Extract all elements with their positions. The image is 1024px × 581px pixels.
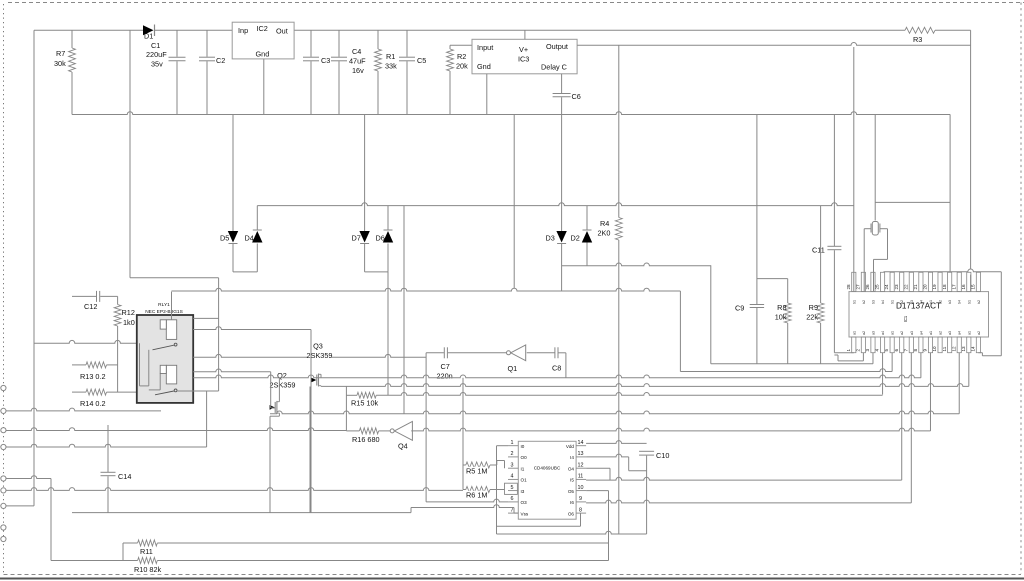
wire D7-D6 junction <box>364 244 366 272</box>
svg-text:4: 4 <box>511 474 514 480</box>
wire Q3 leg down <box>309 387 311 513</box>
svg-text:b2: b2 <box>977 300 981 304</box>
svg-text:12: 12 <box>578 462 584 468</box>
wire crystal right to pin26 <box>880 228 888 230</box>
wire Q3 source <box>320 385 322 388</box>
capacitor C4 <box>338 30 340 56</box>
wire IC1 pin12 vertical <box>958 353 960 414</box>
svg-text:NEC EP2-B3G1S: NEC EP2-B3G1S <box>145 309 183 315</box>
svg-text:8: 8 <box>913 349 918 352</box>
svg-text:5: 5 <box>884 349 889 352</box>
svg-text:8: 8 <box>579 507 582 513</box>
bus CD4069 pin6 left line <box>426 499 508 502</box>
svg-text:a1: a1 <box>929 331 933 335</box>
svg-text:19: 19 <box>932 284 937 290</box>
svg-text:R13 0.2: R13 0.2 <box>80 372 106 381</box>
svg-text:a1: a1 <box>891 331 895 335</box>
svg-text:I1: I1 <box>521 467 525 472</box>
svg-text:a1: a1 <box>852 331 856 335</box>
svg-text:C3: C3 <box>321 56 330 65</box>
resistor R3 <box>905 27 935 33</box>
svg-text:D2: D2 <box>571 234 580 243</box>
page border top (dashed) <box>8 2 1024 4</box>
bus IC1 pin5 line <box>679 291 681 372</box>
svg-text:IC2: IC2 <box>257 24 268 33</box>
svg-text:O0: O0 <box>521 455 528 460</box>
svg-text:16v: 16v <box>352 66 364 75</box>
connector wire row4 <box>6 488 463 491</box>
svg-text:b1: b1 <box>967 300 971 304</box>
wire Vss ground line <box>72 512 411 514</box>
svg-text:IC1: IC1 <box>903 315 908 322</box>
svg-text:22: 22 <box>903 284 908 290</box>
wire IC1 pin5 vertical <box>891 353 893 372</box>
svg-text:33k: 33k <box>385 62 397 71</box>
capacitor C10 <box>639 450 654 452</box>
wire x130 elbow to relay contact <box>130 277 219 279</box>
wire D3-D2 join line to pin2 elbow <box>562 263 711 266</box>
wire mid rail <box>257 203 854 206</box>
svg-text:a4: a4 <box>881 331 885 335</box>
svg-text:R6 1M: R6 1M <box>466 491 488 500</box>
svg-text:220n: 220n <box>437 372 453 381</box>
svg-text:V+: V+ <box>519 45 528 54</box>
connector wire row2 <box>6 444 207 447</box>
svg-text:CD4069UBC: CD4069UBC <box>534 466 561 471</box>
svg-text:C8: C8 <box>552 364 561 373</box>
page border left (dotted) <box>3 4 5 574</box>
wire pin2 elbow <box>710 265 712 364</box>
wire D7 anode from ground rail <box>364 115 366 232</box>
svg-text:22k: 22k <box>806 313 818 322</box>
capacitor C1 <box>176 30 178 56</box>
wire R15 left vertical <box>345 386 347 431</box>
diode D3 <box>556 231 566 243</box>
svg-text:C12: C12 <box>84 302 97 311</box>
svg-text:14: 14 <box>971 346 976 352</box>
svg-text:10k: 10k <box>775 313 787 322</box>
svg-text:D5: D5 <box>220 234 229 243</box>
svg-text:3: 3 <box>511 462 514 468</box>
wire aux rail upper <box>875 114 950 116</box>
wire relay to Q2 gate feed <box>193 369 271 372</box>
wire relay NO line <box>193 317 218 319</box>
svg-text:Output: Output <box>546 42 568 51</box>
svg-text:R15 10k: R15 10k <box>351 399 379 408</box>
IC U-IC1 D17137ACT body <box>849 292 989 337</box>
svg-text:2: 2 <box>511 451 514 457</box>
wire CD4069 pin10 to R10R11 <box>586 490 608 492</box>
svg-text:15: 15 <box>971 284 976 290</box>
wire D5-D4 junction <box>232 244 234 272</box>
wire IC1 pin7 vertical <box>910 353 912 503</box>
svg-text:23: 23 <box>894 284 899 290</box>
IC1 pin stubs <box>852 272 856 291</box>
svg-text:17: 17 <box>951 284 956 290</box>
wire right vertical to IC1 pin16 <box>970 30 972 269</box>
wire row3 drop <box>50 479 52 561</box>
page border bottom (dashed) <box>4 574 1022 576</box>
bus pin1 left wire <box>497 445 509 447</box>
svg-text:25: 25 <box>875 284 880 290</box>
diode D2 <box>582 231 592 243</box>
wire pin12 jog <box>586 467 610 469</box>
wire R5R6 left vertical <box>462 378 464 490</box>
svg-text:O4: O4 <box>568 467 575 472</box>
bus circle-R16 line left <box>6 428 346 431</box>
svg-text:C7: C7 <box>441 362 450 371</box>
svg-text:R10 82k: R10 82k <box>134 565 162 574</box>
svg-text:20k: 20k <box>456 62 468 71</box>
svg-text:1: 1 <box>511 440 514 446</box>
wire IC1 pin8 vertical <box>920 353 922 378</box>
wire left vertical from top rail <box>33 30 35 506</box>
capacitor C14 <box>107 425 109 472</box>
svg-text:Vss: Vss <box>521 511 529 516</box>
wire top supply rail <box>34 29 143 31</box>
wire D6 junction down to R15 line <box>387 272 389 395</box>
wire R11 left vertical <box>122 543 124 561</box>
svg-text:RLY1: RLY1 <box>158 302 170 308</box>
svg-text:6: 6 <box>894 349 899 352</box>
capacitor C5 <box>406 30 408 56</box>
wire Q1 out to C8 <box>527 352 555 354</box>
svg-text:10: 10 <box>578 485 584 491</box>
wire crystal left to pin27 <box>864 228 871 230</box>
resistor R8 <box>787 279 789 303</box>
bus IC1 pin13 line <box>321 384 969 387</box>
svg-text:18: 18 <box>942 284 947 290</box>
wire Q3 drain <box>320 374 322 378</box>
svg-text:R8: R8 <box>777 303 786 312</box>
resistor R6 <box>463 489 466 491</box>
resistor R2 <box>449 45 451 49</box>
crystal X1 <box>874 115 876 221</box>
wire Q2 source down to ground line <box>269 416 271 512</box>
svg-text:b1: b1 <box>852 300 856 304</box>
svg-text:R2: R2 <box>457 52 466 61</box>
capacitor C12 <box>72 295 96 297</box>
svg-text:R16 680: R16 680 <box>352 435 380 444</box>
pin5 box <box>505 483 518 494</box>
svg-text:Q4: Q4 <box>398 442 408 451</box>
wire C9 riser from ground rail <box>756 115 758 305</box>
svg-text:b3: b3 <box>948 300 952 304</box>
svg-text:O1: O1 <box>521 478 528 483</box>
svg-text:a2: a2 <box>862 331 866 335</box>
svg-text:R3: R3 <box>913 35 922 44</box>
wire IC1 pin1 to C11 <box>834 352 853 354</box>
wire C7 left elbow <box>425 353 427 502</box>
svg-text:Q1: Q1 <box>508 364 518 373</box>
bus IC1 pin6 line <box>586 477 902 480</box>
wire C6 to D3 <box>561 97 563 231</box>
svg-text:R4: R4 <box>600 219 609 228</box>
svg-text:C5: C5 <box>417 56 426 65</box>
svg-text:14: 14 <box>578 440 584 446</box>
svg-text:2K0: 2K0 <box>598 229 611 238</box>
svg-text:24: 24 <box>884 284 889 290</box>
svg-text:Gnd: Gnd <box>477 62 491 71</box>
svg-text:13: 13 <box>961 346 966 352</box>
capacitor C9 <box>750 304 764 306</box>
resistor R5 <box>463 464 466 466</box>
svg-text:a4: a4 <box>958 331 962 335</box>
svg-text:R11: R11 <box>140 547 153 556</box>
resistor R13 <box>72 364 86 366</box>
svg-text:2: 2 <box>855 349 860 352</box>
wire C9-R8-R9 bottom bus <box>711 363 873 365</box>
wire IC2 Gnd to ground rail <box>263 59 265 115</box>
wire IC3 output rail <box>577 43 971 46</box>
svg-text:a3: a3 <box>910 331 914 335</box>
svg-text:9: 9 <box>579 496 582 502</box>
wire C9-R8 top link <box>757 278 788 280</box>
relay contact 2 <box>174 389 177 392</box>
relay coil 2 <box>166 365 176 384</box>
svg-text:11: 11 <box>578 474 584 480</box>
wire IC3 Gnd to ground rail <box>486 74 488 115</box>
CD4069 pin stubs <box>508 445 518 447</box>
svg-text:C9: C9 <box>735 304 744 313</box>
svg-text:b1: b1 <box>891 300 895 304</box>
connector wire row3 <box>6 476 51 479</box>
svg-text:28: 28 <box>846 284 851 290</box>
svg-text:5: 5 <box>511 485 514 491</box>
svg-text:20: 20 <box>923 284 928 290</box>
svg-text:C4: C4 <box>352 47 361 56</box>
bus Vdd/C10 line <box>586 441 647 444</box>
connector pins <box>1 385 6 390</box>
svg-text:3: 3 <box>865 349 870 352</box>
svg-text:4: 4 <box>875 349 880 352</box>
svg-text:C11: C11 <box>812 246 825 255</box>
svg-text:D7: D7 <box>352 234 361 243</box>
wire ground rail <box>72 112 950 115</box>
svg-text:12: 12 <box>951 346 956 352</box>
svg-text:b3: b3 <box>871 300 875 304</box>
svg-text:O5: O5 <box>568 489 575 494</box>
diode D6 <box>383 231 393 243</box>
svg-text:IC3: IC3 <box>518 55 529 64</box>
capacitor C8 <box>554 347 556 358</box>
capacitor C6 <box>561 74 563 93</box>
resistor R4 <box>618 45 620 217</box>
svg-text:27: 27 <box>855 284 860 290</box>
svg-text:Inp: Inp <box>238 26 248 35</box>
svg-text:R5 1M: R5 1M <box>466 467 488 476</box>
wire Q3 gate/leg <box>310 330 312 513</box>
svg-text:I0: I0 <box>521 444 525 449</box>
relay internal wiring <box>139 343 141 386</box>
capacitor C3 <box>310 30 312 56</box>
svg-text:C2: C2 <box>216 56 225 65</box>
wire R6 to pin5 box <box>490 489 505 491</box>
bus IC1 pin7 line <box>586 500 911 503</box>
svg-text:10: 10 <box>932 346 937 352</box>
svg-text:9: 9 <box>923 349 928 352</box>
svg-text:47uF: 47uF <box>349 57 366 66</box>
resistor R12 <box>117 296 119 304</box>
relay RLY1 body <box>137 315 193 403</box>
inverter Q4 <box>390 429 394 433</box>
relay contact 1 <box>174 343 177 346</box>
wire D4 to mid rail <box>256 206 258 230</box>
svg-text:Q3: Q3 <box>313 342 323 351</box>
wire rail drop x514 <box>513 115 515 289</box>
svg-text:1: 1 <box>846 349 851 352</box>
svg-text:Q2: Q2 <box>277 371 287 380</box>
wire IC1 pin3 bus <box>872 353 874 364</box>
wire C8 down to bus <box>565 353 567 378</box>
transistor Q3 <box>316 375 318 386</box>
svg-text:Out: Out <box>276 27 288 36</box>
svg-text:D1: D1 <box>144 32 153 41</box>
wire R12 down <box>117 326 119 392</box>
resistor R7 <box>71 30 73 48</box>
diode D7 <box>359 231 369 243</box>
wire IC1 pin6 vertical <box>901 353 903 480</box>
page border right (dashed) <box>1020 3 1022 575</box>
wire right aux vertical <box>949 115 951 272</box>
svg-text:C14: C14 <box>118 472 131 481</box>
svg-text:a3: a3 <box>871 331 875 335</box>
wire D6 to mid rail <box>387 206 389 230</box>
wire IC1 pin9 vertical <box>929 353 931 431</box>
wire D2 to mid rail <box>586 206 588 230</box>
wire pin1 net bottom bus <box>497 531 647 534</box>
wire left rail to relay <box>34 340 171 343</box>
svg-text:a2: a2 <box>977 331 981 335</box>
svg-text:R12: R12 <box>122 308 135 317</box>
bus IC1 pin8 line <box>193 375 921 378</box>
svg-text:1k0: 1k0 <box>123 318 135 327</box>
svg-text:R9: R9 <box>809 303 818 312</box>
resistor R11 <box>123 542 138 544</box>
svg-text:11: 11 <box>942 346 947 351</box>
wire O6 to pin1 net <box>580 513 582 526</box>
svg-text:2SK359: 2SK359 <box>270 381 296 390</box>
capacitor C7 <box>426 352 444 354</box>
wire R2 to IC3 input <box>450 44 472 46</box>
wire Q2 gate <box>270 372 272 408</box>
wire rail loop to pin14 <box>1000 272 1002 356</box>
svg-text:I6: I6 <box>570 500 574 505</box>
bus IC1 pin12 line <box>270 411 959 414</box>
svg-text:Vdd: Vdd <box>566 444 575 449</box>
wire Q2 source <box>278 413 280 416</box>
svg-text:7: 7 <box>903 349 908 352</box>
inverter Q1 <box>507 351 511 355</box>
svg-text:R1: R1 <box>386 52 395 61</box>
connector wire row1 <box>6 408 161 411</box>
wire vertical at x130 <box>129 30 131 277</box>
svg-text:35v: 35v <box>151 60 163 69</box>
wire D3-D2 junction <box>561 244 563 292</box>
wire C10 bottom <box>646 456 648 534</box>
diode D4 <box>252 231 262 243</box>
resistor R9 <box>820 206 822 303</box>
wire R4 long vertical <box>618 240 620 534</box>
svg-text:R14 0.2: R14 0.2 <box>80 399 106 408</box>
transistor Q2 <box>274 402 276 413</box>
svg-text:a2: a2 <box>900 331 904 335</box>
svg-text:a2: a2 <box>939 331 943 335</box>
wire R5 to pin3 <box>490 464 497 466</box>
relay coil 1 <box>166 320 176 340</box>
svg-text:2SK359: 2SK359 <box>307 351 333 360</box>
svg-text:b4: b4 <box>881 300 885 304</box>
svg-text:D3: D3 <box>546 234 555 243</box>
resistor R16 <box>346 430 359 432</box>
svg-text:O3: O3 <box>521 500 528 505</box>
svg-text:O6: O6 <box>568 511 575 516</box>
diode D5 <box>228 231 238 243</box>
wire IC3 V+ to top rail <box>524 30 526 39</box>
wire D5 anode from ground rail <box>232 115 234 232</box>
resistor R10 <box>51 560 138 562</box>
wire relay to Q3 gate <box>193 327 311 330</box>
svg-text:I3: I3 <box>521 489 525 494</box>
wire mid-rail drop x404 <box>403 206 405 414</box>
svg-text:a4: a4 <box>919 331 923 335</box>
wire Q2 drain <box>278 378 280 402</box>
svg-text:21: 21 <box>913 284 918 290</box>
svg-text:I5: I5 <box>570 478 574 483</box>
svg-text:6: 6 <box>511 496 514 502</box>
IC U2 CD4069UBC body <box>518 441 576 519</box>
wire IC1 pin4 vertical <box>882 353 884 395</box>
svg-text:R7: R7 <box>56 49 65 58</box>
wire pin13 jog <box>586 454 629 457</box>
bottom rule (dark) <box>0 578 1024 580</box>
wire pin28 riser <box>853 47 855 292</box>
svg-text:30k: 30k <box>54 59 66 68</box>
svg-text:Input: Input <box>477 43 493 52</box>
resistor R14 <box>72 391 86 393</box>
svg-text:C10: C10 <box>656 451 669 460</box>
svg-text:b2: b2 <box>862 300 866 304</box>
svg-text:C6: C6 <box>572 92 581 101</box>
capacitor C11 <box>833 115 835 247</box>
svg-text:D17137ACT: D17137ACT <box>896 302 941 311</box>
wire IC1 pin2 bus <box>862 353 864 361</box>
wire pin header rail <box>884 269 1002 272</box>
svg-text:16: 16 <box>961 284 966 290</box>
svg-text:26: 26 <box>865 284 870 290</box>
svg-text:7: 7 <box>511 507 514 513</box>
resistor R1 <box>377 30 379 49</box>
svg-text:Gnd: Gnd <box>256 50 270 59</box>
wire aux rail lower <box>875 201 950 203</box>
wire IC1 pin13 vertical <box>968 353 970 387</box>
capacitor C2 <box>206 30 208 56</box>
timer IC3 <box>472 39 577 74</box>
label R14 <box>79 399 108 408</box>
svg-text:C1: C1 <box>151 41 160 50</box>
connector wire row5 <box>6 505 34 507</box>
bus R15/pin4 line <box>346 394 357 396</box>
svg-text:b4: b4 <box>958 300 962 304</box>
svg-text:13: 13 <box>578 451 584 457</box>
svg-text:D4: D4 <box>245 234 254 243</box>
diode D1 <box>143 25 154 35</box>
wire relay aux line <box>193 354 426 357</box>
bus Q4 to IC1 pin9 line <box>411 428 930 431</box>
svg-text:a3: a3 <box>948 331 952 335</box>
svg-text:220uF: 220uF <box>146 50 167 59</box>
svg-text:I4: I4 <box>570 455 574 460</box>
